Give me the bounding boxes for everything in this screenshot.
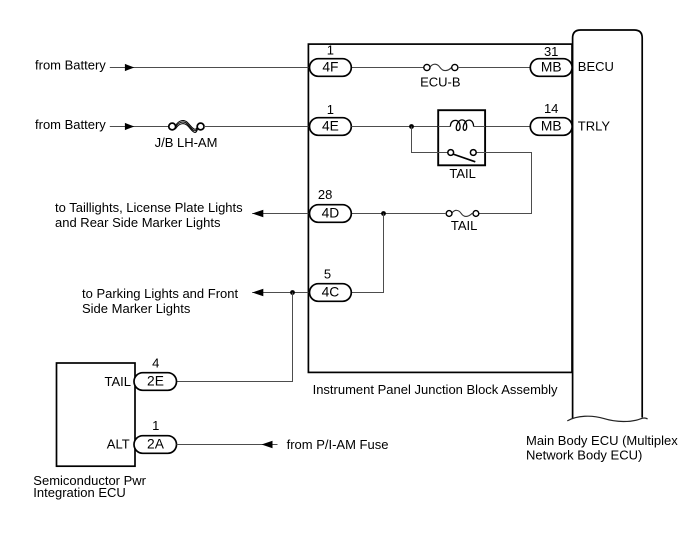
wire TAIL fuse to 4D	[351, 213, 446, 215]
relay coil	[450, 120, 473, 131]
svg-text:5: 5	[324, 267, 331, 282]
connector 2A	[134, 436, 177, 454]
wire 2A from P/I-AM fuse	[177, 444, 278, 446]
svg-text:J/B LH-AM: J/B LH-AM	[155, 135, 218, 150]
svg-text:Integration ECU: Integration ECU	[33, 485, 126, 500]
svg-text:ALT: ALT	[107, 436, 130, 451]
svg-text:TAIL: TAIL	[105, 374, 132, 389]
fusible link J/B LH-AM	[169, 120, 204, 132]
svg-text:1: 1	[152, 418, 159, 433]
svg-text:from Battery: from Battery	[35, 58, 106, 73]
fuse ECU-B	[424, 64, 458, 70]
svg-text:4: 4	[152, 356, 159, 371]
svg-text:BECU: BECU	[578, 59, 614, 74]
wire relay feed drop	[412, 127, 448, 153]
svg-text:28: 28	[318, 187, 332, 202]
svg-text:4F: 4F	[322, 60, 338, 75]
wire 4D to taillights	[252, 213, 308, 215]
wire 4F to ECU-B fuse	[351, 67, 424, 69]
svg-text:from P/I-AM Fuse: from P/I-AM Fuse	[287, 437, 389, 452]
junction block: Instrument Panel Junction Block Assembly	[308, 44, 572, 372]
svg-text:to Parking Lights and Front: to Parking Lights and Front	[82, 286, 238, 301]
Main Body ECU outline (rounded top)	[573, 30, 643, 419]
connector 4E	[310, 118, 352, 136]
Main Body ECU torn-edge wave	[567, 416, 647, 421]
svg-text:14: 14	[544, 101, 558, 116]
svg-text:2E: 2E	[147, 374, 164, 389]
svg-text:MB: MB	[541, 119, 562, 134]
wire ECU-B to MB(BECU)	[458, 67, 530, 69]
Semiconductor Pwr Integration ECU box	[57, 363, 136, 466]
connector 4C	[310, 284, 352, 302]
wire from Battery to fusible link	[110, 126, 169, 128]
svg-text:MB: MB	[541, 60, 562, 75]
node junction dot (4D branch)	[381, 211, 386, 216]
arrow to Parking Lights	[252, 289, 263, 296]
svg-text:1: 1	[327, 102, 334, 117]
connector MB (TRLY)	[530, 118, 572, 136]
relay switch	[448, 150, 485, 162]
svg-text:Side Marker Lights: Side Marker Lights	[82, 301, 191, 316]
svg-text:4D: 4D	[322, 206, 340, 221]
svg-text:4C: 4C	[322, 285, 340, 300]
wire from Battery to 4F	[110, 67, 309, 69]
arrow from P/I-AM fuse	[262, 441, 273, 448]
svg-text:Instrument Panel Junction Bloc: Instrument Panel Junction Block Assembly	[313, 382, 558, 397]
arrow from Battery row 4E	[125, 123, 134, 130]
svg-text:2A: 2A	[147, 437, 165, 452]
connector MB (BECU)	[530, 59, 572, 77]
wire 4D branch down to 4C	[351, 214, 383, 293]
svg-text:TAIL: TAIL	[449, 166, 476, 181]
wire inside relay to coil	[438, 126, 450, 128]
svg-text:ECU-B: ECU-B	[420, 74, 460, 89]
node junction dot (relay feed)	[409, 124, 414, 129]
wire 2E branch down	[177, 293, 293, 382]
relay TAIL box	[438, 110, 485, 165]
svg-text:TRLY: TRLY	[578, 119, 611, 134]
svg-text:TAIL: TAIL	[451, 218, 478, 233]
svg-text:1: 1	[327, 43, 334, 58]
svg-text:from Battery: from Battery	[35, 117, 106, 132]
wire 4E to relay box	[351, 126, 438, 128]
wire relay switch to TAIL fuse	[479, 153, 532, 214]
svg-text:Main Body ECU (Multiplex: Main Body ECU (Multiplex	[526, 433, 678, 448]
node junction dot (2E branch)	[290, 290, 295, 295]
arrow from Battery row 4F	[125, 64, 134, 71]
svg-text:to Taillights, License Plate L: to Taillights, License Plate Lights	[55, 200, 243, 215]
svg-text:4E: 4E	[322, 119, 339, 134]
svg-text:and Rear Side Marker Lights: and Rear Side Marker Lights	[55, 215, 221, 230]
svg-text:Network Body ECU): Network Body ECU)	[526, 448, 642, 463]
wire relay coil to MB(TRLY)	[485, 126, 530, 128]
svg-text:31: 31	[544, 44, 558, 59]
fuse TAIL	[446, 210, 479, 216]
wire fusible link to 4E	[204, 126, 309, 128]
connector 4F	[310, 59, 352, 77]
connector 2E	[134, 373, 177, 391]
arrow to Taillights	[252, 210, 263, 217]
connector 4D	[310, 205, 352, 223]
wire 4C to parking lights	[252, 292, 308, 294]
